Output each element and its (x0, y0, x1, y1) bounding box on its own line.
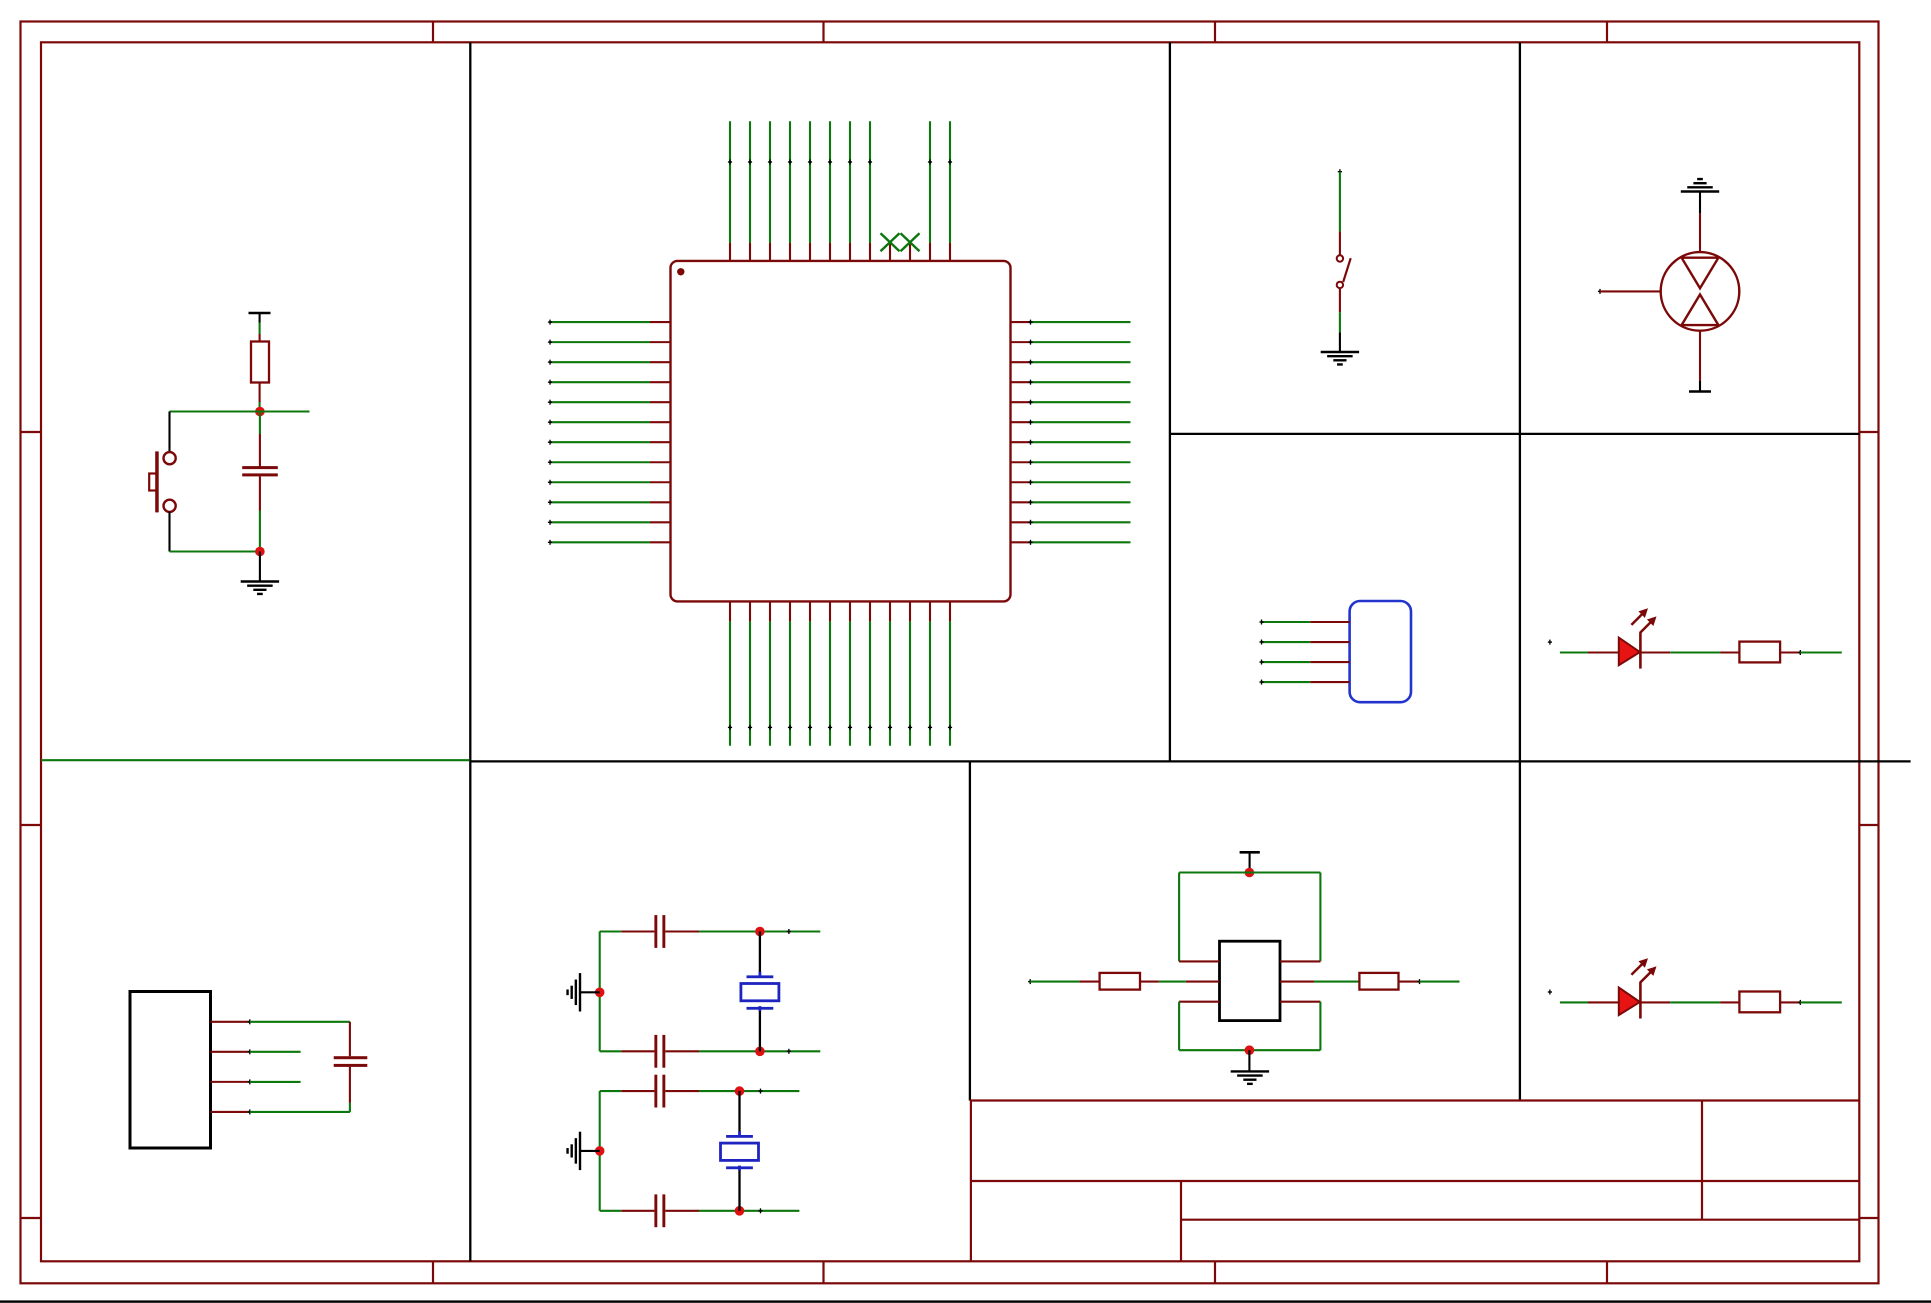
IC U1 body (671, 261, 1011, 602)
IC U1 bottom pin stubs (730, 601, 950, 621)
wire U2 pin1 to C2 (250, 1022, 350, 1056)
wire S1 to node B (168, 512, 170, 552)
wire to ground GND4 (580, 1150, 600, 1152)
resistor R5 (1739, 992, 1780, 1013)
wire end mark D1 anode (1548, 640, 1552, 645)
wire end mark C4 (787, 1049, 791, 1054)
wire R2 to edge (1800, 651, 1842, 653)
crystal Y2 (721, 1131, 759, 1170)
capacitor C2 (334, 1056, 368, 1067)
wire R4 right (1399, 981, 1420, 983)
wire to SW1 (1339, 172, 1341, 232)
ground GND5 (1231, 1071, 1269, 1083)
resistor R2 (1739, 642, 1780, 663)
divider line V3 (1519, 42, 1521, 1100)
wire U2 pin3 (250, 1081, 301, 1083)
title block top line (970, 1099, 1859, 1101)
divider line V1 (469, 42, 471, 1261)
title block lower line (1181, 1219, 1859, 1221)
wire end mark LA1 left (1598, 289, 1602, 294)
capacitor C4 (654, 1035, 665, 1068)
border zone ticks top (433, 21, 1607, 43)
wire R3 to U3 (1140, 981, 1186, 983)
title block middle line (971, 1180, 1859, 1182)
connector J1 body (1350, 601, 1411, 702)
module U2 body (130, 992, 211, 1149)
title block vertical divider A (1180, 1181, 1182, 1261)
wire to R3 (1030, 981, 1099, 983)
wire C6 to crystal Y2 (665, 1210, 799, 1212)
wire end mark SW1 top (1338, 169, 1342, 174)
junction C3 node (755, 927, 765, 937)
wires U1 right pins (1031, 322, 1131, 542)
junction ground GND3 (595, 988, 605, 998)
wire to capacitor C4 (600, 1050, 655, 1052)
wire earth to LA1 (1699, 192, 1701, 253)
IC U1 top pin stubs (730, 243, 950, 261)
wire R2 right (1780, 651, 1800, 653)
crystal Y1 pins (759, 932, 761, 1052)
wire end marks U1 bottom (728, 725, 952, 730)
junction node A (255, 407, 265, 417)
wire end mark C5 (758, 1089, 762, 1094)
lamp LA1 (1661, 252, 1740, 331)
wire U3 to R4 (1314, 981, 1359, 983)
wire to D2 (1560, 1001, 1619, 1003)
ground GND3 (568, 973, 580, 1011)
wires U1 top pins (730, 121, 950, 243)
ground GND2 (1321, 352, 1359, 364)
wire end mark R2 right (1798, 650, 1802, 655)
screen bottom edge line (0, 1300, 1931, 1302)
switch SW1 (1337, 255, 1351, 288)
wire node D to ground (1248, 1050, 1250, 1071)
capacitor C6 (654, 1194, 665, 1227)
junction node D (1245, 1045, 1255, 1055)
capacitor C1 (242, 466, 278, 476)
wires J1 pins (1262, 622, 1311, 682)
wire end mark D2 anode (1548, 990, 1552, 995)
resistor R4 (1359, 973, 1398, 990)
wire C5 to crystal Y2 (665, 1090, 799, 1092)
LED D2 light arrows (1631, 958, 1656, 983)
lamp LA1 left pin (1600, 290, 1661, 292)
power symbol P3 (1240, 852, 1260, 872)
wire node B horizontal (170, 550, 260, 552)
connector J1 pin stubs (1310, 622, 1349, 682)
wires U1 left pins (550, 322, 650, 542)
module U3 pin stubs (1179, 961, 1320, 1001)
crystal Y1 (741, 972, 779, 1011)
junction node C (1245, 868, 1255, 878)
switch SW1 pin bottom (1339, 288, 1341, 312)
wire SW1 to ground (1339, 312, 1341, 351)
LED D1 light arrows (1631, 608, 1656, 633)
wire end marks U2 (248, 1019, 252, 1114)
no-connect X marks (881, 233, 920, 251)
divider line V4 (969, 761, 971, 1100)
capacitor C3 (654, 915, 665, 948)
wire C2 to U2 pin4 (250, 1067, 350, 1112)
module U2 pin stubs (210, 1022, 249, 1112)
ground GND4 (568, 1132, 580, 1170)
ground GND1 (241, 582, 279, 594)
wire to capacitor C5 (600, 1090, 655, 1092)
wire U2 pin2 (250, 1051, 301, 1053)
border zone ticks bottom (433, 1261, 1607, 1283)
divider line H1 (1170, 433, 1859, 435)
LED D1 (1619, 633, 1641, 669)
title block vertical divider B (1701, 1101, 1703, 1220)
wire to D1 (1560, 651, 1619, 653)
wires U1 bottom pins (730, 621, 950, 745)
wire R5 right (1780, 1001, 1800, 1003)
junction C4 node (755, 1047, 765, 1057)
wire end marks J1 (1259, 620, 1263, 685)
divider line V2 (1169, 42, 1171, 761)
wire bottom loop (1179, 1002, 1320, 1050)
wire R1 to node A (259, 383, 261, 412)
wire node A horizontal (170, 410, 310, 412)
wire R4 to edge (1420, 981, 1460, 983)
wire end mark R4 right (1417, 979, 1421, 984)
wire D1 to R2 (1640, 651, 1739, 653)
wire C3 to crystal Y1 (665, 930, 820, 932)
earth symbol E1 inverted (1681, 179, 1719, 191)
wire to ground GND3 (580, 991, 600, 993)
junction C6 node (735, 1206, 745, 1216)
power symbol P1 (249, 313, 271, 323)
lamp LA1 bottom pin (1699, 331, 1701, 381)
junction C5 node (735, 1086, 745, 1096)
IC U1 right pin stubs (1010, 322, 1031, 542)
crystal Y2 pins (738, 1091, 740, 1211)
wire to capacitor C3 (600, 930, 655, 932)
wire node A to S1 pin (168, 412, 170, 453)
wire end mark C6 (758, 1208, 762, 1213)
pushbutton S1 (149, 451, 176, 512)
wire long horizontal net (41, 759, 469, 761)
wire end marks U1 right (1028, 320, 1032, 545)
border zone ticks left (21, 432, 43, 1218)
wire node B to ground (259, 552, 261, 582)
wire power to R1 (259, 323, 261, 342)
capacitor C5 (654, 1075, 665, 1108)
IC U1 no-connect pin stubs (890, 243, 910, 261)
wire node A to C1 (259, 412, 261, 468)
wire top loop (1179, 873, 1320, 962)
wire C4 to crystal Y1 (665, 1050, 820, 1052)
resistor R1 (251, 342, 269, 383)
switch SW1 pin top (1339, 232, 1341, 256)
wire left rail Y2 (599, 1091, 601, 1211)
junction node B (255, 547, 265, 557)
junction ground GND4 (595, 1146, 605, 1156)
wire R5 to edge (1800, 1001, 1842, 1003)
divider line H2 (470, 760, 1910, 762)
wire left rail Y1 (599, 932, 601, 1052)
wire end mark R3 left (1028, 979, 1032, 984)
module U3 body (1220, 941, 1281, 1020)
border zone ticks right (1859, 432, 1879, 1218)
wire C1 to node B (259, 476, 261, 551)
LED D2 (1619, 983, 1641, 1019)
wire end mark C3 (787, 929, 791, 934)
wire end mark R5 right (1798, 1000, 1802, 1005)
wire end marks U1 top (728, 160, 952, 165)
power symbol P2 inverted (1689, 381, 1711, 392)
wire to capacitor C6 (600, 1210, 655, 1212)
resistor R3 (1100, 973, 1140, 990)
wire D2 to R5 (1640, 1001, 1739, 1003)
IC U1 left pin stubs (650, 322, 671, 542)
wire end marks U1 left (548, 320, 552, 545)
title block left edge (970, 1101, 972, 1262)
